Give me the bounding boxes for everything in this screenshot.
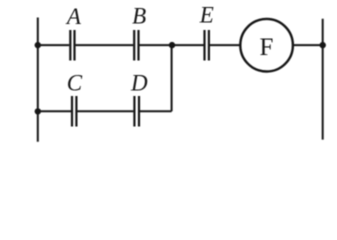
wire rung1 node J1 to E <box>172 44 204 46</box>
svg-text:C: C <box>67 70 83 95</box>
wire rung2 rail to C <box>38 110 71 112</box>
wire rung2 C to D <box>77 110 133 112</box>
svg-text:E: E <box>199 2 214 27</box>
junction dot left rail rung1 <box>35 42 41 48</box>
coil F circle <box>240 19 293 72</box>
right power rail <box>322 19 324 140</box>
junction dot left rail rung2 <box>35 108 41 114</box>
svg-text:B: B <box>132 3 146 28</box>
svg-text:A: A <box>65 4 82 29</box>
contact A <box>69 30 71 61</box>
wire rung1 coil F to right rail <box>293 44 323 46</box>
node J1 junction dot <box>169 42 175 48</box>
wire vertical rung2 corner up to node J1 <box>171 45 173 111</box>
wire rung1 E to coil F <box>210 44 240 46</box>
contact D <box>133 96 135 127</box>
svg-text:D: D <box>130 70 148 95</box>
wire rung2 D to corner <box>140 110 172 112</box>
wire rung1 A to B <box>76 44 134 46</box>
contact B <box>133 30 135 61</box>
junction dot right rail rung1 <box>320 42 326 48</box>
wire rung1 B to node J1 <box>140 44 173 46</box>
contact E <box>203 30 205 61</box>
contact C <box>71 96 73 127</box>
svg-text:F: F <box>259 34 273 61</box>
left power rail <box>37 18 39 142</box>
wire rung1 rail to A <box>38 44 70 46</box>
